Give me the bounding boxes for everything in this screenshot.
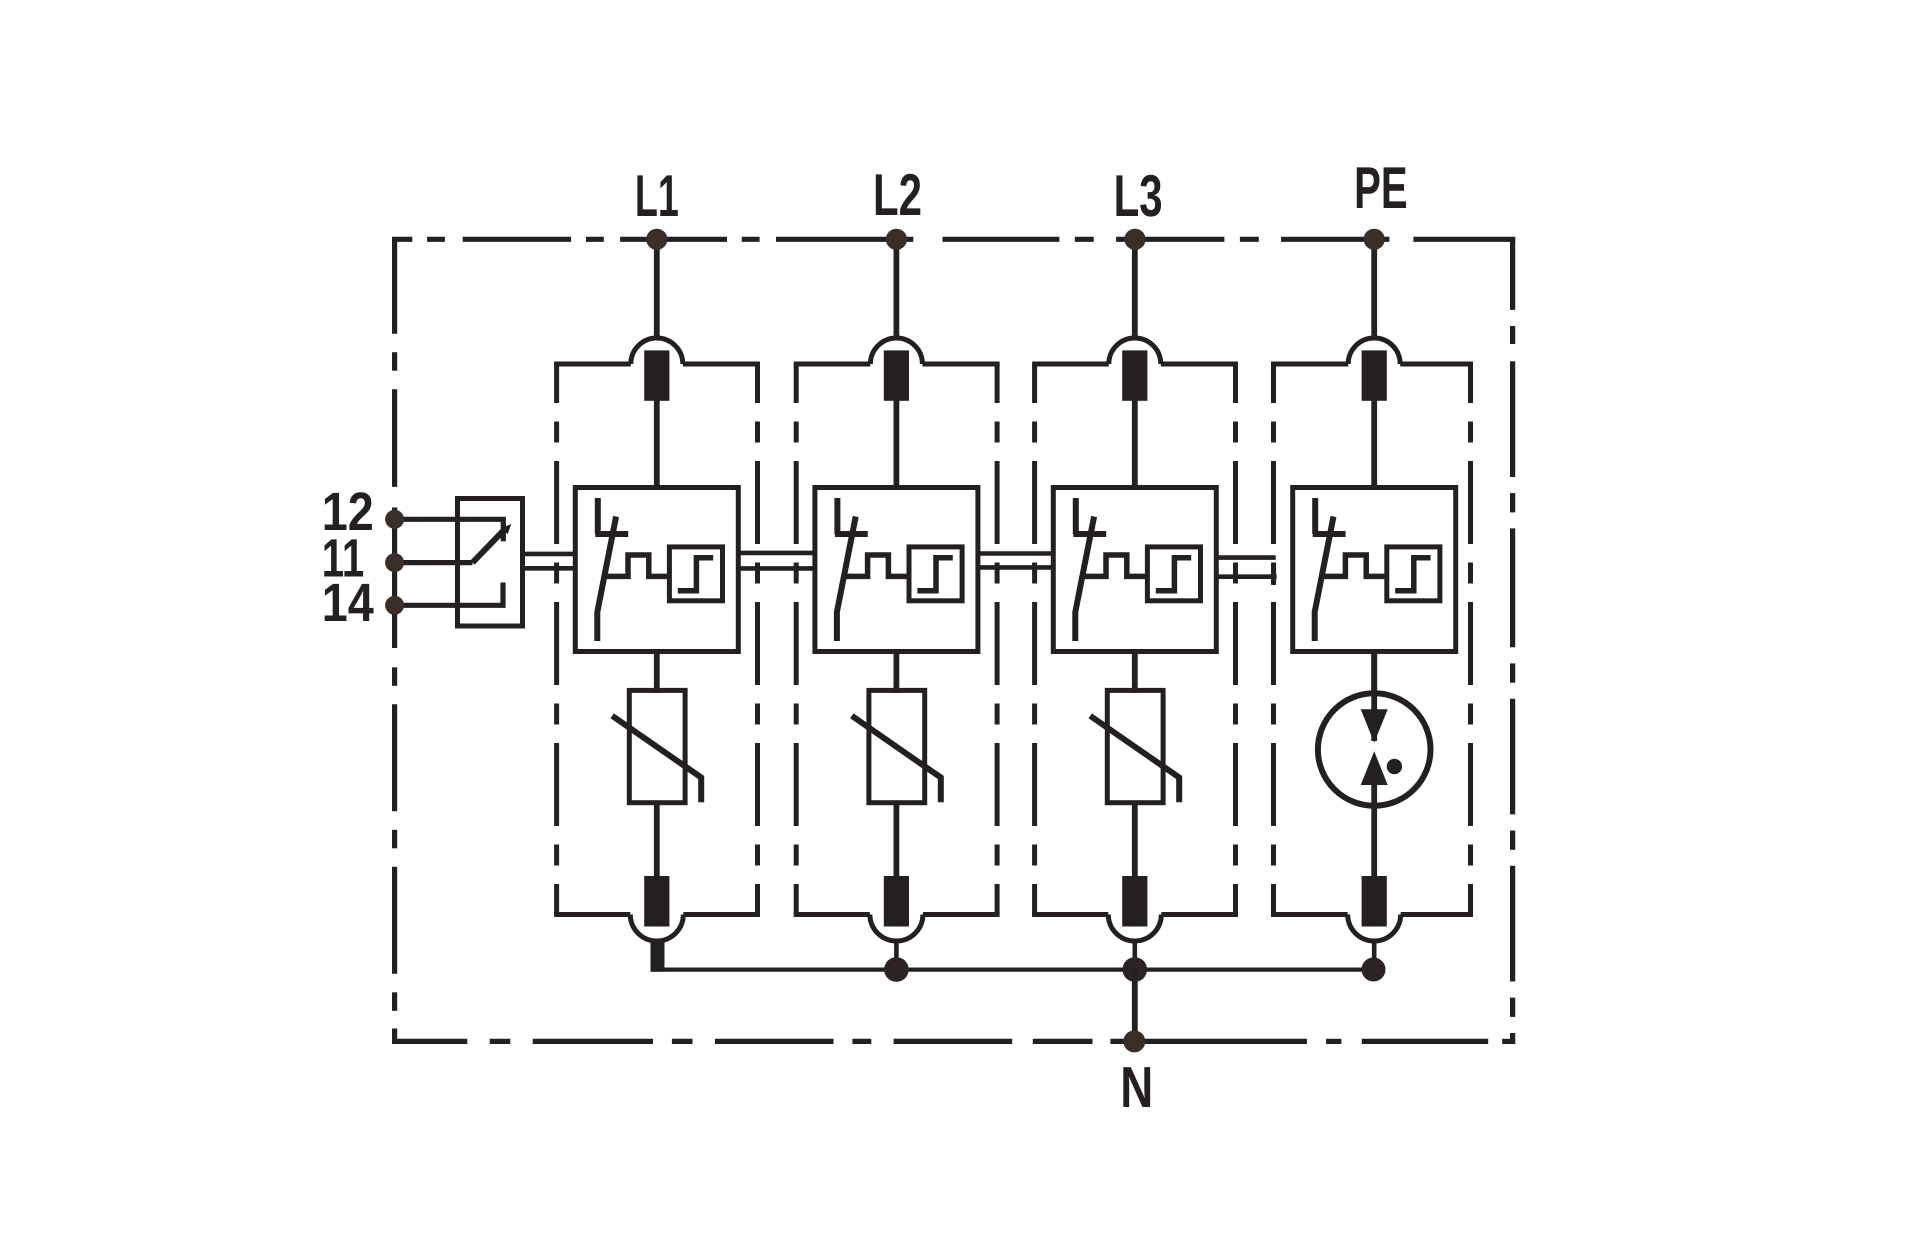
wire contact 11 (common) xyxy=(395,560,473,565)
terminal pad bottom PE xyxy=(1362,876,1387,927)
svg-text:14: 14 xyxy=(322,573,374,633)
terminal pad bottom L1 xyxy=(644,876,669,927)
label L2 xyxy=(873,162,922,228)
wire L2 disconnector to element xyxy=(894,652,900,694)
changeover contact blade xyxy=(473,524,512,563)
svg-text:PE: PE xyxy=(1354,155,1408,221)
thermal disconnector box PE xyxy=(1293,488,1456,652)
disconnector contact symbol L2 xyxy=(835,498,868,641)
wire L2 lead-in xyxy=(894,239,900,340)
node L3 terminal xyxy=(1124,229,1145,250)
label N xyxy=(1120,1055,1153,1120)
wire L3 element to bottom pad xyxy=(1132,801,1138,877)
bus link L2-L3 (double line) xyxy=(978,554,1054,568)
varistor L1 xyxy=(612,690,701,802)
svg-text:L1: L1 xyxy=(635,163,679,229)
mode-of-protection enclosure PE (dash-dot) xyxy=(1271,364,1473,915)
thermal disconnector box L1 xyxy=(575,488,738,652)
label 12 xyxy=(322,482,374,542)
terminal bump arc bottom L1 xyxy=(630,915,683,942)
wire L2 element to bottom pad xyxy=(894,801,900,877)
junction node L2-N xyxy=(884,957,909,982)
mode-of-protection enclosure L1 (dash-dot) xyxy=(554,364,760,915)
wire PE pad to disconnector xyxy=(1371,399,1377,488)
node L2 terminal xyxy=(886,229,907,250)
node contact 12 xyxy=(385,510,404,529)
wire L3 disconnector to element xyxy=(1132,652,1138,694)
wire L2 pad to disconnector xyxy=(894,399,900,488)
thermal disconnector box L2 xyxy=(815,488,978,652)
wire L1 elbow to N bus xyxy=(651,942,665,972)
bus link L3 to PE enclosure (double line) xyxy=(1216,558,1276,585)
terminal pad top L1 xyxy=(644,350,669,400)
wire contact 12 xyxy=(395,519,504,541)
terminal bump arc top PE xyxy=(1348,338,1400,364)
wire L1 lead-in xyxy=(654,239,660,340)
label L3 xyxy=(1114,163,1163,229)
device boundary (dash-dot outer border) xyxy=(392,237,1515,1044)
wire L2 to N bus xyxy=(894,940,899,970)
svg-text:L2: L2 xyxy=(873,162,922,228)
wire PE to N bus xyxy=(1372,940,1377,970)
wire L3 to N bus xyxy=(1133,940,1138,970)
bus link L1-L2 (double line) xyxy=(738,553,815,569)
terminal bump arc top L1 xyxy=(631,338,683,364)
thermal disconnector box L3 xyxy=(1053,488,1216,652)
mode-of-protection enclosure L2 (dash-dot) xyxy=(794,364,1000,915)
terminal bump arc bottom L2 xyxy=(870,915,923,942)
node N terminal xyxy=(1123,1030,1145,1052)
thermal trip waveform PE xyxy=(1322,555,1387,576)
bus link: signalling contact to L1 (double line) xyxy=(523,554,576,568)
disconnector contact symbol L1 xyxy=(595,498,628,641)
mode-of-protection enclosure L3 (dash-dot) xyxy=(1032,364,1238,915)
wire L1 disconnector to element xyxy=(654,652,660,694)
terminal bump arc bottom PE xyxy=(1348,915,1401,942)
disconnector contact symbol L3 xyxy=(1073,498,1106,641)
svg-text:N: N xyxy=(1120,1055,1153,1120)
terminal pad top L3 xyxy=(1122,350,1147,400)
thermal trip waveform L1 xyxy=(605,555,670,576)
varistor L2 xyxy=(852,690,941,802)
terminal bump arc top L2 xyxy=(870,338,922,364)
trip indicator box L1 xyxy=(669,547,722,601)
node contact 11 xyxy=(385,553,404,572)
remote signalling contact box xyxy=(458,499,523,627)
wire L3 pad to disconnector xyxy=(1132,399,1138,488)
trip indicator box L2 xyxy=(909,547,962,601)
disconnector contact symbol PE xyxy=(1313,498,1346,641)
label 14 xyxy=(322,573,374,633)
wire L3 lead-in xyxy=(1132,239,1138,340)
node PE terminal xyxy=(1364,229,1385,250)
terminal bump arc top L3 xyxy=(1109,338,1161,364)
N bus wire xyxy=(651,967,1374,971)
terminal bump arc bottom L3 xyxy=(1108,915,1161,942)
node contact 14 xyxy=(385,596,404,615)
label 11 xyxy=(322,529,365,589)
terminal pad bottom L2 xyxy=(884,876,909,927)
thermal trip waveform L2 xyxy=(844,555,909,576)
wire contact 14 xyxy=(395,583,503,606)
junction node L3-N xyxy=(1123,957,1148,982)
trip indicator box PE xyxy=(1387,547,1440,601)
wire PE lead-in xyxy=(1371,239,1377,340)
wire L1 pad to disconnector xyxy=(654,399,660,488)
terminal pad top L2 xyxy=(884,350,909,400)
wire N bus to N terminal xyxy=(1132,970,1138,1042)
node L1 terminal xyxy=(646,229,667,250)
terminal pad top PE xyxy=(1362,350,1387,400)
wire L1 element to bottom pad xyxy=(654,801,660,877)
wire PE disconnector to element xyxy=(1371,652,1377,694)
trip indicator box L3 xyxy=(1147,547,1200,601)
label L1 xyxy=(635,163,679,229)
terminal pad bottom L3 xyxy=(1122,876,1147,927)
varistor L3 xyxy=(1090,690,1179,802)
junction node PE-N xyxy=(1362,958,1386,982)
svg-text:L3: L3 xyxy=(1114,163,1163,229)
thermal trip waveform L3 xyxy=(1083,555,1148,576)
label PE xyxy=(1354,155,1408,221)
gas discharge tube PE xyxy=(1318,652,1431,878)
